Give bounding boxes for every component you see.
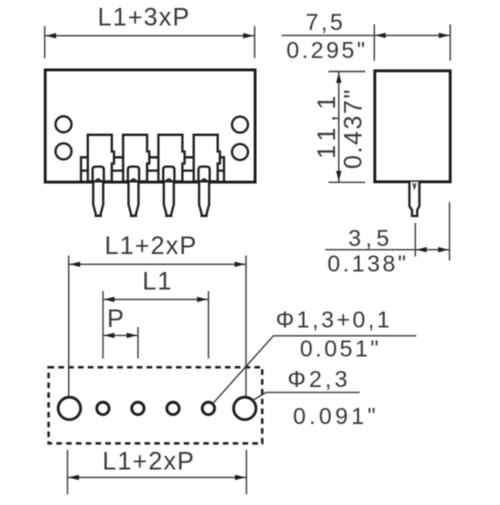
arrow left	[416, 247, 427, 252]
svg-text:P: P	[107, 305, 125, 333]
extension line L1 left	[102, 291, 104, 359]
arrow right	[235, 475, 246, 480]
contact block 4	[194, 135, 220, 182]
arrow left	[70, 262, 81, 267]
contact block 3	[158, 135, 184, 182]
arrow right	[197, 297, 208, 302]
flange hole top-right	[232, 117, 248, 133]
hole small 2	[132, 402, 144, 414]
solder rail gap 3-4	[183, 157, 194, 170]
leader line large hole diameter	[252, 392, 359, 400]
svg-text:11,1: 11,1	[313, 90, 341, 159]
extension line bottom left	[67, 450, 69, 494]
extension line left	[373, 24, 375, 60]
solder rail right end	[218, 157, 224, 181]
side pin	[409, 182, 419, 216]
svg-text:0.295": 0.295"	[286, 37, 367, 63]
arrow right	[438, 247, 449, 252]
svg-text:0.091": 0.091"	[293, 403, 379, 429]
hole large left	[58, 397, 80, 419]
extension line body edge	[449, 202, 451, 261]
contact pin 1 dome	[95, 179, 101, 181]
contact pin 2 dome	[131, 179, 137, 181]
extension line P right	[137, 327, 139, 359]
extension line left to hole	[68, 256, 70, 403]
dimension line P	[103, 334, 138, 336]
solder rail gap 1-2	[112, 157, 123, 170]
side body outline	[375, 71, 450, 182]
dimension line 3,5 with fraction bar	[325, 249, 449, 251]
svg-text:0.138": 0.138"	[327, 251, 408, 277]
contact pin 2 upper	[128, 167, 139, 183]
extension line left	[44, 26, 46, 58]
flange hole bottom-right	[232, 144, 248, 160]
vertical dimension line 11,1	[338, 72, 340, 183]
extension tick bottom	[328, 181, 365, 183]
svg-text:0.437": 0.437"	[340, 88, 368, 169]
svg-text:L1: L1	[142, 268, 172, 296]
arrow down	[336, 171, 341, 182]
hole small 3	[167, 402, 179, 414]
contact pin 3 dome	[166, 179, 172, 181]
arrow left	[375, 33, 386, 38]
contact pin 3 lower	[164, 181, 174, 215]
dimension line L1	[103, 298, 209, 300]
solder rail left end	[81, 157, 88, 181]
dimension line L1+2xP bottom	[68, 476, 247, 478]
arrow right	[243, 33, 254, 38]
footprint outline dashed	[49, 367, 263, 443]
extension line pin centre	[414, 223, 416, 257]
svg-text:3,5: 3,5	[348, 225, 393, 251]
dimension line L1+3xP	[45, 35, 255, 37]
contact block 1	[88, 135, 114, 182]
extension line right	[449, 24, 451, 60]
dimension line 7,5 with fraction bar	[282, 34, 451, 36]
svg-text:Φ2,3: Φ2,3	[287, 366, 350, 392]
solder rail gap 2-3	[147, 157, 158, 170]
arrow left	[104, 333, 115, 338]
arrow left	[68, 475, 79, 480]
svg-text:L1+2xP: L1+2xP	[102, 448, 195, 476]
arrow right	[127, 333, 138, 338]
arrow right	[439, 33, 450, 38]
flange hole top-left	[56, 116, 72, 132]
contact pin 4 upper	[199, 167, 210, 183]
arrow left	[46, 33, 57, 38]
extension line bottom right	[245, 450, 247, 494]
contact pin 1 lower	[93, 181, 103, 215]
contact pin 4 lower	[199, 181, 209, 215]
hole large right	[234, 397, 256, 419]
svg-text:0.051": 0.051"	[300, 336, 381, 362]
contact block 2	[123, 135, 149, 182]
dimension line L1+2xP top	[69, 263, 246, 265]
svg-text:Φ1,3+0,1: Φ1,3+0,1	[276, 307, 393, 333]
flange hole bottom-left	[56, 143, 72, 159]
extension line right	[254, 26, 256, 58]
svg-text:L1+3xP: L1+3xP	[98, 3, 191, 31]
arrow right	[235, 262, 246, 267]
leader line small hole diameter	[213, 336, 417, 404]
contact pin 3 upper	[163, 167, 174, 183]
side pin seam notch	[413, 183, 416, 188]
svg-text:7,5: 7,5	[306, 9, 346, 35]
svg-text:L1+2xP: L1+2xP	[105, 232, 198, 260]
extension line L1 right	[208, 291, 210, 359]
extension tick top	[328, 71, 365, 73]
contact pin 1 upper	[93, 167, 104, 183]
connector body outline	[45, 70, 255, 182]
contact pin 4 dome	[201, 179, 207, 181]
contact pin 2 lower	[129, 181, 139, 215]
arrow up	[336, 72, 341, 83]
hole small 1	[97, 402, 109, 414]
extension line right to hole	[245, 256, 247, 403]
arrow left	[104, 297, 115, 302]
hole small 4	[202, 402, 214, 414]
